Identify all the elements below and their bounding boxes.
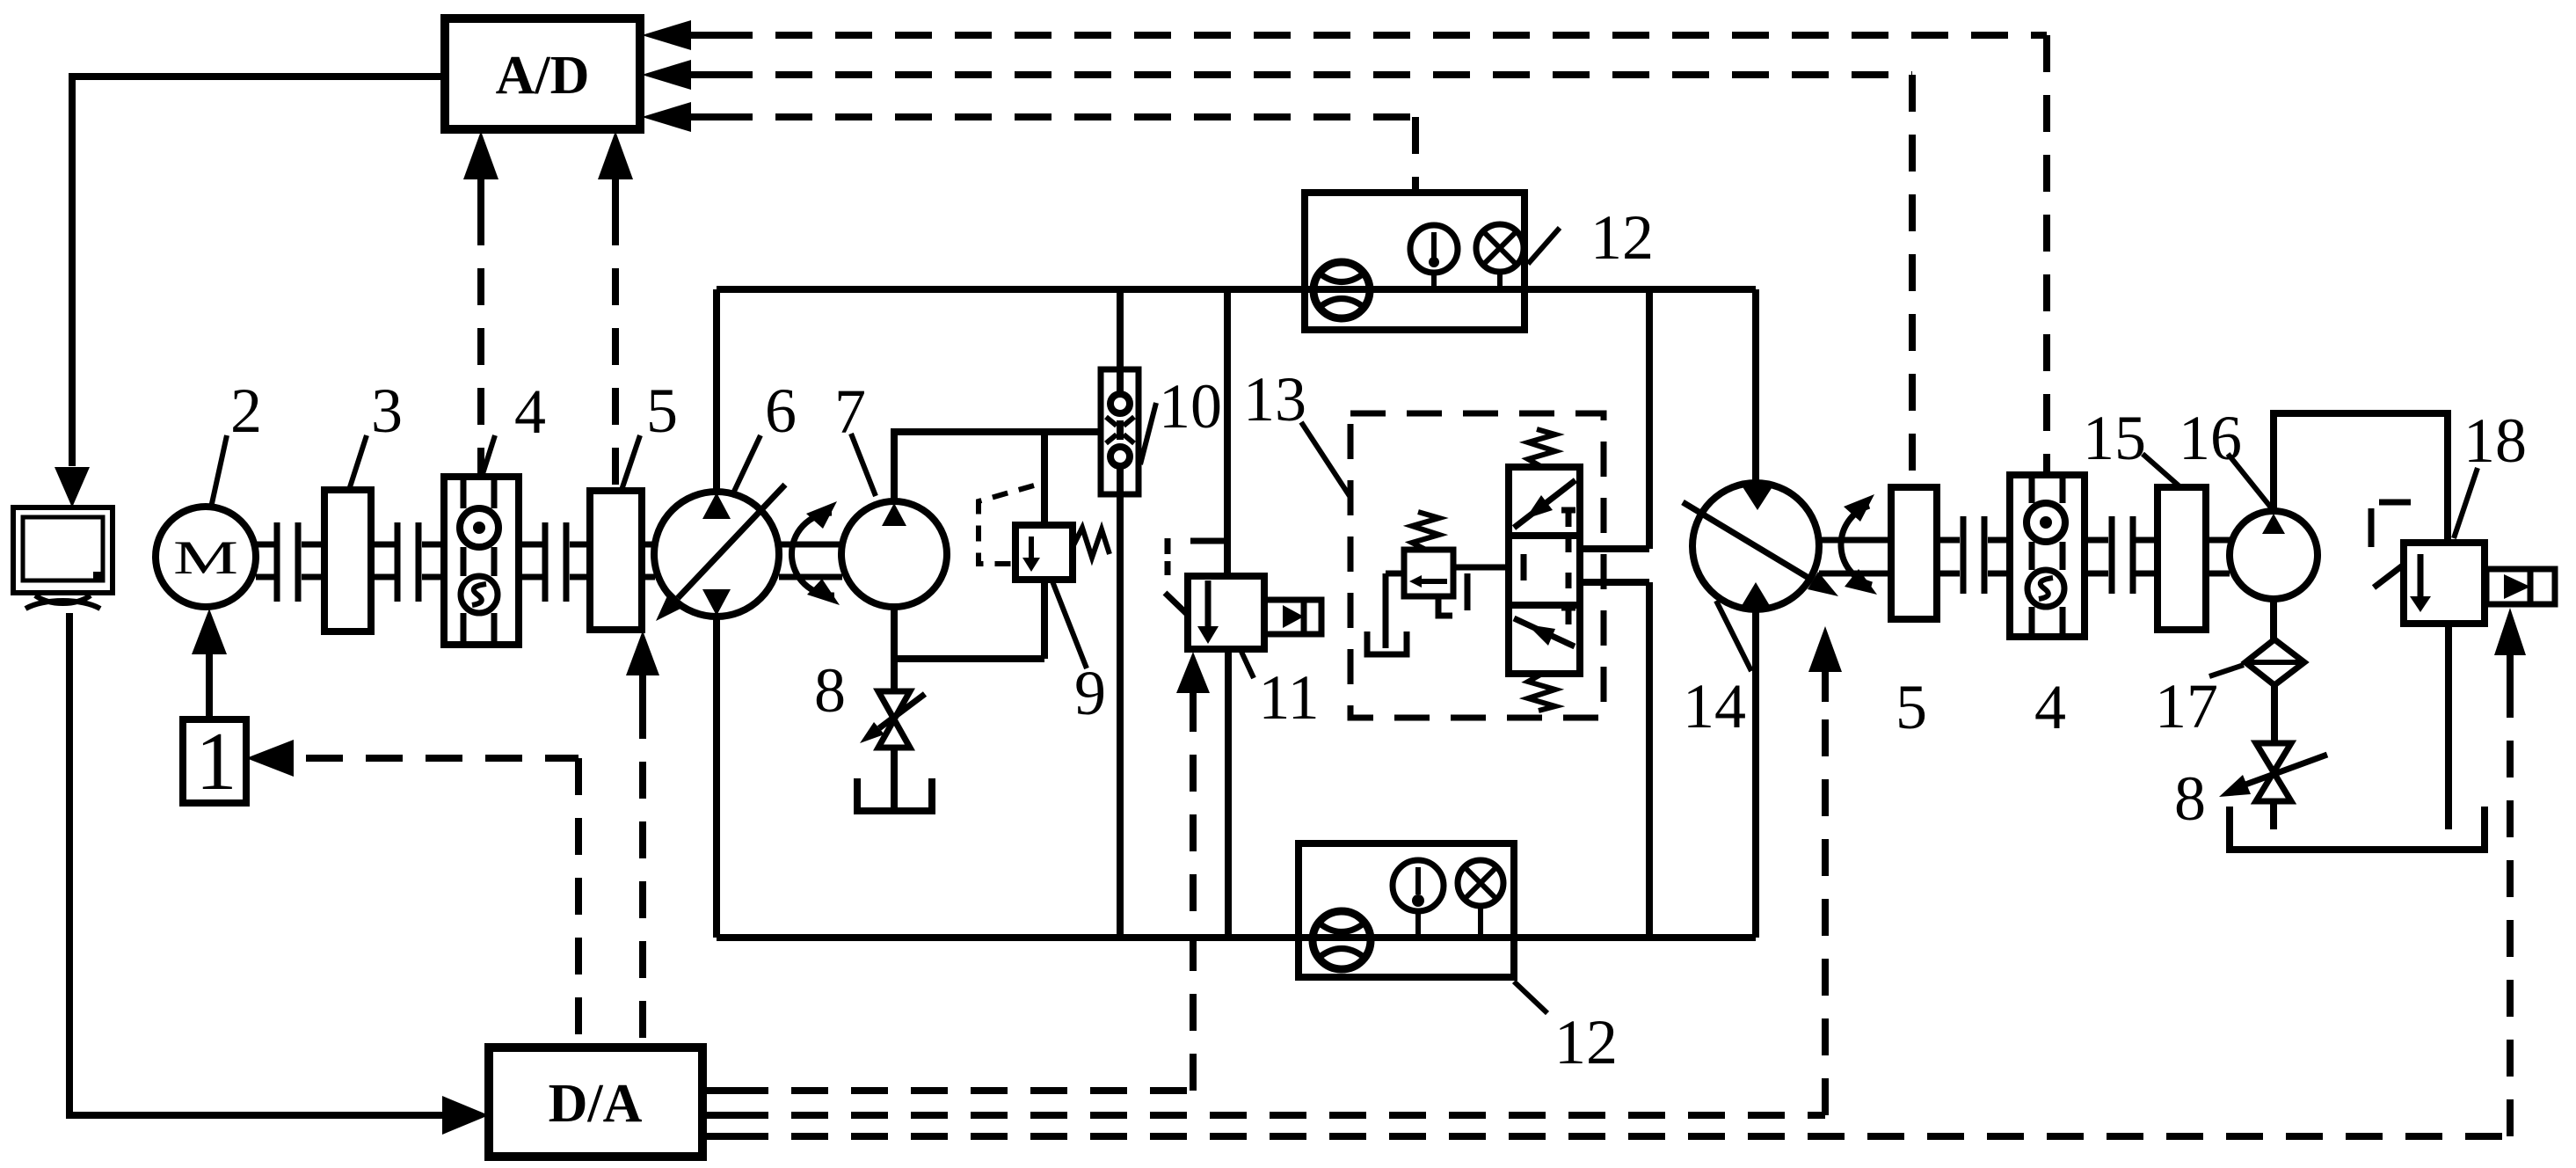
- svg-text:6: 6: [765, 376, 797, 446]
- svg-text:14: 14: [1683, 671, 1746, 741]
- svg-text:D/A: D/A: [549, 1074, 643, 1134]
- svg-text:13: 13: [1243, 364, 1306, 434]
- svg-text:8: 8: [2174, 763, 2206, 834]
- svg-text:1: 1: [196, 716, 237, 807]
- svg-text:5: 5: [1896, 672, 1927, 742]
- svg-text:5: 5: [646, 376, 678, 446]
- svg-text:12: 12: [1590, 202, 1654, 273]
- svg-text:17: 17: [2155, 671, 2218, 741]
- svg-text:8: 8: [814, 655, 846, 726]
- svg-text:18: 18: [2463, 405, 2527, 476]
- svg-text:4: 4: [514, 376, 546, 447]
- svg-text:10: 10: [1159, 371, 1222, 442]
- svg-text:A/D: A/D: [496, 46, 590, 106]
- svg-text:3: 3: [371, 376, 403, 446]
- svg-text:2: 2: [230, 376, 262, 446]
- svg-text:11: 11: [1258, 662, 1319, 733]
- svg-text:15: 15: [2083, 403, 2146, 473]
- svg-text:M: M: [173, 531, 238, 584]
- svg-text:9: 9: [1074, 658, 1106, 728]
- svg-text:4: 4: [2034, 672, 2066, 742]
- svg-text:12: 12: [1554, 1007, 1618, 1077]
